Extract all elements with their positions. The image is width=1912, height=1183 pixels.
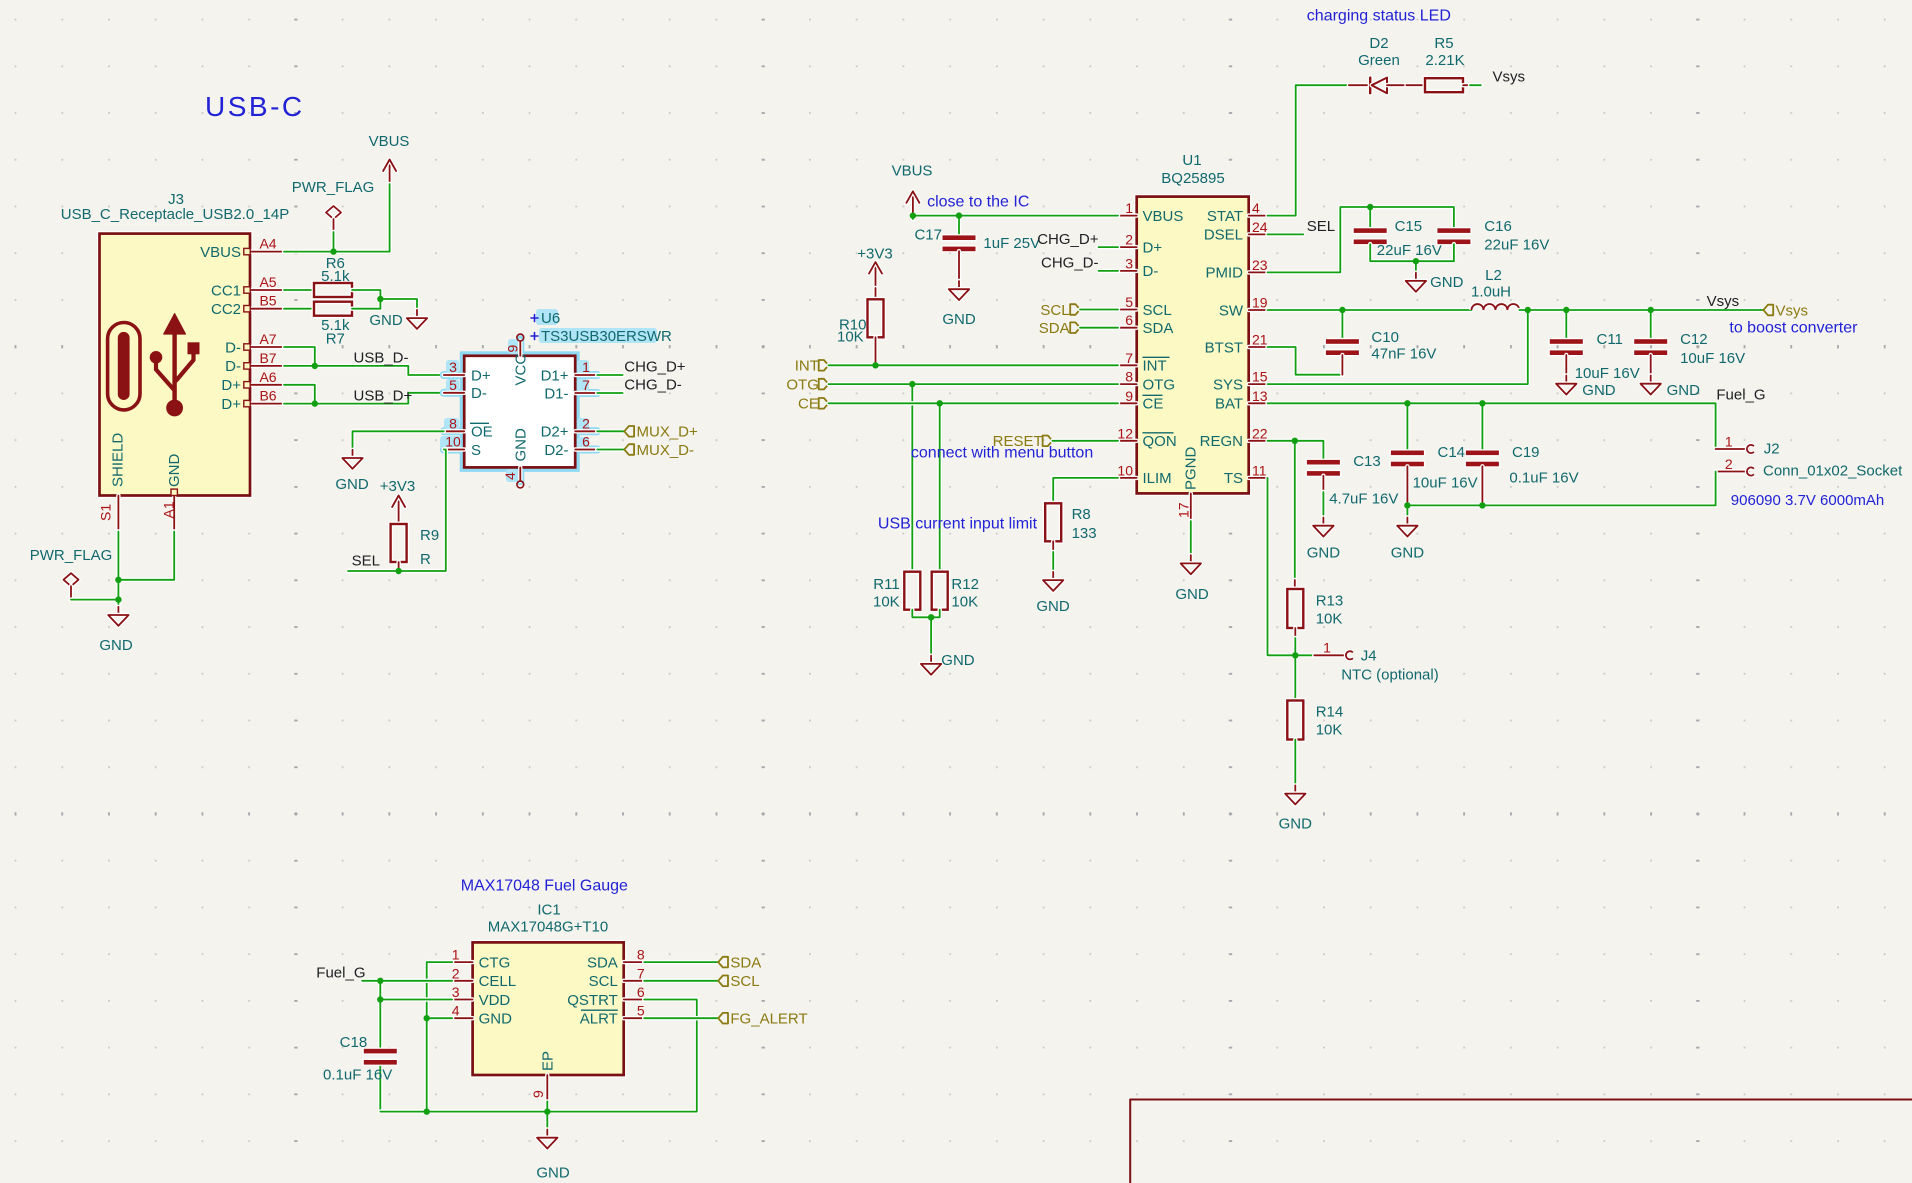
svg-text:TS3USB30ERSWR: TS3USB30ERSWR — [541, 328, 672, 345]
svg-text:GND: GND — [1175, 586, 1209, 603]
U6 pin 3 D+ — [444, 359, 491, 384]
U1 pin 12 QON — [1117, 425, 1176, 450]
wire C15 top stub — [1368, 207, 1372, 228]
J3 pin A4 VBUS — [200, 236, 284, 261]
wire IC1 gnd rail — [380, 1000, 697, 1112]
svg-text:GND: GND — [1430, 274, 1464, 291]
ground GND (R14) — [1279, 785, 1313, 832]
svg-text:GND: GND — [941, 652, 975, 669]
inductor L2 — [1471, 267, 1519, 310]
wire CE to U1 pin9 — [829, 401, 1119, 405]
IC1 pin 6 QSTRT — [567, 984, 645, 1009]
svg-text:D+: D+ — [1143, 239, 1163, 256]
svg-text:FG_ALERT: FG_ALERT — [730, 1011, 807, 1028]
ground GND (C17) — [942, 281, 976, 328]
capacitor C16 — [1436, 218, 1549, 254]
svg-text:TS: TS — [1224, 470, 1243, 487]
svg-text:GND: GND — [479, 1011, 512, 1028]
svg-text:4: 4 — [502, 472, 518, 480]
junction C14 top — [1404, 400, 1410, 406]
junction C12 top — [1648, 307, 1654, 313]
svg-text:R9: R9 — [420, 527, 439, 544]
wire SYS to L2 output — [1268, 310, 1528, 384]
wire OTG to U1 pin8 — [829, 382, 1119, 386]
U1 pin 5 SCL — [1118, 294, 1172, 319]
U1 pin 10 ILIM — [1117, 462, 1171, 487]
svg-text:1: 1 — [582, 359, 590, 375]
svg-text:CC1: CC1 — [211, 282, 241, 299]
svg-text:D-: D- — [471, 385, 487, 402]
U1 pin 7 INT — [1118, 350, 1170, 375]
IC U1 body — [1137, 197, 1249, 494]
svg-text:MUX_D+: MUX_D+ — [637, 424, 699, 441]
junction PWR_FLAG (bottom) — [115, 596, 121, 602]
power flag PWR_FLAG (top) — [292, 179, 375, 232]
hierarchical label INT — [795, 358, 829, 375]
svg-text:S: S — [471, 442, 481, 459]
wire Fuel_G to CELL — [362, 979, 452, 983]
wire C19 top stub — [1480, 403, 1484, 450]
wire DSEL to SEL label — [1268, 232, 1304, 236]
svg-text:1: 1 — [1323, 639, 1331, 655]
svg-text:C15: C15 — [1395, 218, 1423, 235]
svg-text:STAT: STAT — [1207, 208, 1243, 225]
resistor R14 — [1287, 701, 1343, 740]
svg-text:INT: INT — [1143, 358, 1167, 375]
wire R10 bottom to INT wire — [873, 337, 877, 365]
U1 pin 22 REGN — [1200, 425, 1268, 450]
svg-text:USB-C: USB-C — [205, 91, 305, 122]
connector J2 pin 2 — [1716, 456, 1754, 476]
svg-text:BTST: BTST — [1205, 339, 1243, 356]
svg-text:GND: GND — [166, 454, 183, 488]
wire R8 bottom to GND — [1051, 541, 1055, 552]
wire SW to L2 — [1268, 308, 1472, 312]
svg-text:GND: GND — [942, 311, 976, 328]
wire TS down to J4 — [1268, 478, 1296, 655]
U6 pin 9 VCC top — [505, 334, 530, 385]
svg-text:CHG_D+: CHG_D+ — [1037, 231, 1099, 248]
hierarchical label RESET — [993, 433, 1053, 450]
svg-text:2: 2 — [1125, 232, 1133, 248]
svg-text:OTG: OTG — [786, 376, 819, 393]
svg-text:GND: GND — [1036, 598, 1070, 615]
junction C15 top — [1367, 204, 1373, 210]
resistor R8 — [1045, 503, 1096, 542]
svg-text:connect with menu button: connect with menu button — [911, 444, 1093, 461]
U1 pin 17 PGND — [1176, 446, 1200, 521]
ground GND (R11/R12) — [921, 652, 975, 675]
svg-text:C17: C17 — [914, 227, 942, 244]
wire CC1 to R6 — [284, 288, 314, 292]
svg-text:10uF 16V: 10uF 16V — [1680, 350, 1745, 367]
wire R6 right to junction — [352, 290, 380, 299]
svg-text:R7: R7 — [326, 331, 345, 348]
wire C12 top stub — [1648, 310, 1652, 339]
U6 pin 4 GND bottom — [502, 428, 530, 488]
U6 pin 2 D2+ — [541, 415, 598, 440]
wire to VDD — [380, 997, 452, 1001]
svg-text:SCL: SCL — [730, 973, 759, 990]
svg-text:B6: B6 — [259, 388, 276, 404]
wire R13 top — [1293, 441, 1297, 581]
U1 pin 13 BAT — [1215, 388, 1268, 413]
svg-text:21: 21 — [1252, 332, 1268, 348]
svg-text:R12: R12 — [951, 576, 979, 593]
wire PGND to GND — [1189, 521, 1193, 555]
junction C15/C16 gnd — [1413, 258, 1419, 264]
svg-text:10: 10 — [1117, 462, 1133, 478]
power flag PWR_FLAG (bottom left) — [30, 547, 113, 600]
wire C11 bottom to GND — [1564, 355, 1568, 376]
svg-text:10uF 16V: 10uF 16V — [1575, 365, 1640, 382]
svg-text:Fuel_G: Fuel_G — [316, 965, 365, 982]
resistor R6 — [314, 255, 352, 297]
junction SEL/R9 — [395, 568, 401, 574]
U1 pin 1 VBUS — [1118, 200, 1183, 225]
svg-text:SDA: SDA — [1143, 320, 1174, 337]
svg-text:9: 9 — [1125, 388, 1133, 404]
svg-text:CE: CE — [1143, 396, 1164, 413]
svg-text:10K: 10K — [837, 329, 864, 346]
wire RESET to U1 pin12 QON — [1052, 439, 1118, 443]
junction Fuel_G/C18 column top — [377, 978, 383, 984]
svg-text:VBUS: VBUS — [369, 133, 410, 150]
U1 pin 15 SYS — [1213, 369, 1268, 394]
svg-text:9: 9 — [505, 345, 521, 353]
connector J3 body — [100, 234, 251, 496]
junction C17 top — [956, 212, 962, 218]
U6 pin 8 OE — [444, 415, 493, 440]
svg-text:R: R — [420, 551, 431, 568]
svg-text:SCL: SCL — [1040, 302, 1069, 319]
resistor R11 — [873, 572, 920, 611]
svg-text:GND: GND — [536, 1165, 570, 1182]
U1 pin 3 D- — [1118, 255, 1158, 280]
power symbol +3V3 (R9) — [380, 478, 415, 524]
svg-text:OE: OE — [471, 424, 493, 441]
wire SDA (IC1) — [644, 960, 718, 964]
capacitor C19 — [1465, 444, 1579, 486]
svg-text:9: 9 — [530, 1090, 546, 1098]
svg-text:CC2: CC2 — [211, 301, 241, 318]
U1 pin 24 DSEL — [1204, 219, 1268, 244]
svg-text:133: 133 — [1072, 525, 1097, 542]
junction OTG/R11 — [909, 381, 915, 387]
junction C19 bottom — [1479, 502, 1485, 508]
svg-text:CHG_D-: CHG_D- — [624, 377, 682, 394]
IC IC1 body — [473, 942, 624, 1075]
wire U6 pin8 OE to GND — [353, 431, 444, 450]
wire C18 column — [378, 981, 382, 1049]
wire VBUS to U1 pin1 — [911, 216, 915, 219]
resistor R5 — [1406, 35, 1470, 92]
hierarchical label SCL (U1) — [1040, 302, 1080, 319]
svg-text:Fuel_G: Fuel_G — [1716, 386, 1765, 403]
wire R11/R12 bottoms join — [912, 610, 939, 618]
svg-text:12: 12 — [1117, 425, 1133, 441]
svg-text:D-: D- — [225, 358, 241, 375]
wire SCL to U1 pin5 — [1080, 307, 1118, 311]
power symbol +3V3 (R10) — [857, 246, 892, 300]
junction VDD branch — [377, 996, 383, 1002]
junction C10 top — [1339, 307, 1345, 313]
svg-text:A6: A6 — [259, 369, 276, 385]
U6 value text TS3USB30ERSWR — [531, 328, 672, 345]
U6 pin 6 D2- — [544, 434, 597, 459]
junction C18 rail — [424, 1108, 430, 1114]
svg-text:D-: D- — [1143, 263, 1159, 280]
svg-text:USB current input limit: USB current input limit — [878, 516, 1038, 533]
capacitor C14 — [1390, 444, 1478, 492]
svg-text:S1: S1 — [98, 504, 114, 521]
U1 pin 21 BTST — [1205, 332, 1268, 357]
svg-text:INT: INT — [795, 358, 819, 375]
svg-text:CTG: CTG — [479, 954, 511, 971]
svg-text:CHG_D+: CHG_D+ — [624, 359, 686, 376]
ground GND (C15/C16) — [1406, 273, 1464, 292]
wire R7 right to junction — [352, 299, 380, 309]
svg-text:5: 5 — [449, 377, 457, 393]
wire U6 pin1 to CHG_D+ — [597, 373, 622, 377]
svg-text:19: 19 — [1252, 295, 1268, 311]
svg-text:C19: C19 — [1512, 444, 1540, 461]
svg-text:8: 8 — [1125, 369, 1133, 385]
ground GND (R8) — [1036, 572, 1070, 615]
wire SCL (IC1) — [644, 979, 718, 983]
J3 pin A7 D- — [225, 331, 284, 356]
junction CTG/GND pin4 — [424, 1015, 430, 1021]
wire C14 bottom stub — [1405, 466, 1409, 505]
hierarchical label MUX_D- — [624, 442, 694, 459]
wire C19 bottom stub — [1480, 466, 1484, 505]
wire A1 down to S1 — [118, 532, 174, 580]
svg-text:OTG: OTG — [1143, 376, 1176, 393]
svg-text:10K: 10K — [951, 594, 978, 611]
sheet outline box (bottom right) — [1130, 1100, 1912, 1183]
resistor R12 — [932, 572, 979, 611]
svg-text:Conn_01x02_Socket: Conn_01x02_Socket — [1763, 463, 1903, 480]
ground GND (PGND) — [1175, 555, 1209, 603]
svg-text:MUX_D-: MUX_D- — [637, 442, 695, 459]
svg-text:C18: C18 — [340, 1034, 368, 1051]
svg-text:VCC: VCC — [513, 354, 530, 386]
svg-text:SYS: SYS — [1213, 376, 1243, 393]
svg-text:3: 3 — [449, 359, 457, 375]
svg-text:D1-: D1- — [544, 385, 568, 402]
svg-text:R5: R5 — [1434, 35, 1453, 52]
svg-text:IC1: IC1 — [537, 902, 560, 919]
svg-text:QON: QON — [1143, 433, 1177, 450]
svg-text:10K: 10K — [873, 594, 900, 611]
hierarchical label CE — [798, 396, 828, 413]
junction R11/R12 gnd — [928, 614, 934, 620]
wire ALRT to FG_ALERT — [644, 1016, 718, 1020]
wire C10 top stub — [1340, 310, 1344, 339]
svg-text:EP: EP — [540, 1051, 557, 1071]
wire C17 top — [957, 216, 961, 236]
svg-text:0.1uF 16V: 0.1uF 16V — [1509, 469, 1578, 486]
power symbol VBUS (U1) — [892, 163, 933, 220]
svg-text:SHIELD: SHIELD — [110, 433, 127, 487]
svg-text:3: 3 — [1125, 255, 1133, 271]
svg-text:CE: CE — [798, 396, 819, 413]
U1 pin 2 D+ — [1118, 232, 1162, 257]
junction S1/A1 — [115, 577, 121, 583]
U1 pin 11 TS — [1224, 462, 1268, 487]
svg-text:GND: GND — [1279, 816, 1313, 833]
wire junction to J4 pin1 — [1295, 653, 1314, 657]
IC1 pin 9 EP — [530, 1051, 557, 1101]
U6 reference text — [531, 310, 560, 327]
svg-text:DSEL: DSEL — [1204, 227, 1243, 244]
svg-text:A1: A1 — [161, 501, 177, 518]
svg-text:906090 3.7V 6000mAh: 906090 3.7V 6000mAh — [1731, 492, 1884, 509]
wire D+ A6 to B6 — [284, 385, 315, 404]
svg-text:GND: GND — [335, 476, 369, 493]
junction TS/R13/J4 — [1292, 652, 1298, 658]
wire C15/C16 bottom rail — [1370, 244, 1454, 261]
svg-text:SW: SW — [1219, 302, 1244, 319]
ground GND (C12) — [1641, 376, 1701, 400]
svg-text:1: 1 — [1125, 200, 1133, 216]
wire PWR_FLAG stem to VBUS wire — [331, 232, 335, 252]
junction EP rail — [544, 1108, 550, 1114]
wire R14 bottom to GND — [1293, 740, 1297, 786]
IC1 pin 3 VDD — [452, 984, 511, 1009]
wire L2 to Vsys hier label — [1519, 308, 1763, 312]
svg-text:CELL: CELL — [479, 973, 517, 990]
U1 pin 23 PMID — [1206, 257, 1268, 282]
svg-text:Vsys: Vsys — [1707, 293, 1740, 310]
svg-text:SDA: SDA — [730, 954, 761, 971]
wire BAT to J2 pin1 — [1268, 403, 1749, 449]
selection halo of U6 — [444, 340, 597, 482]
svg-text:2: 2 — [582, 415, 590, 431]
wire USB_D+ to U6 pin5 — [284, 393, 444, 404]
U1 pin 19 SW — [1219, 295, 1268, 320]
svg-text:U1: U1 — [1182, 152, 1201, 169]
svg-text:22uF 16V: 22uF 16V — [1377, 242, 1442, 259]
wire INT to U1 pin7 — [829, 363, 1119, 367]
junction D+ wires — [312, 400, 318, 406]
svg-text:VDD: VDD — [479, 992, 511, 1009]
U6 pin 7 D1- — [544, 377, 597, 402]
J3 pin A6 D+ — [221, 369, 284, 394]
ground GND (U6 OE) — [335, 450, 369, 493]
wire PMID to C15/C16 rail — [1268, 207, 1454, 272]
svg-text:SEL: SEL — [352, 553, 380, 570]
power symbol VBUS (top left) — [369, 133, 410, 188]
wire VBUS from J3 A4 — [284, 184, 390, 252]
svg-text:D1+: D1+ — [541, 367, 569, 384]
hierarchical label MUX_D+ — [624, 424, 698, 441]
J3 pin B7 D- — [225, 350, 284, 375]
svg-text:MAX17048 Fuel Gauge: MAX17048 Fuel Gauge — [461, 878, 628, 895]
svg-text:C10: C10 — [1371, 329, 1399, 346]
svg-text:PWR_FLAG: PWR_FLAG — [292, 179, 375, 196]
connector J3 USB icon — [108, 314, 200, 417]
svg-text:10K: 10K — [1316, 722, 1343, 739]
capacitor C15 — [1352, 218, 1441, 259]
wire EP rail to GND — [545, 1112, 549, 1130]
svg-text:SDA: SDA — [1039, 320, 1070, 337]
svg-text:J4: J4 — [1361, 648, 1377, 665]
svg-text:+3V3: +3V3 — [380, 478, 415, 495]
svg-text:4: 4 — [1252, 200, 1260, 216]
svg-text:R14: R14 — [1316, 704, 1344, 721]
svg-text:D+: D+ — [221, 377, 241, 394]
svg-text:7: 7 — [582, 377, 590, 393]
svg-text:10K: 10K — [1316, 611, 1343, 628]
wire R11 top — [910, 384, 914, 572]
LED D2 — [1349, 35, 1407, 93]
wire SDA to U1 pin6 — [1080, 326, 1118, 330]
J3 pin B6 D+ — [221, 388, 284, 413]
wire U6 pin7 to CHG_D- — [597, 391, 622, 395]
U6 pin 1 D1+ — [541, 359, 598, 384]
hierarchical label FG_ALERT — [718, 1011, 807, 1028]
svg-text:R13: R13 — [1316, 593, 1344, 610]
ground GND (C14) — [1391, 518, 1425, 562]
wire CHG_D+ to U1 pin2 — [1099, 245, 1119, 249]
svg-text:17: 17 — [1176, 502, 1192, 518]
svg-text:1.0uH: 1.0uH — [1471, 284, 1511, 301]
svg-text:SDA: SDA — [587, 954, 618, 971]
svg-text:C12: C12 — [1680, 331, 1708, 348]
wire SEL net — [348, 450, 446, 572]
junction C11 top — [1563, 307, 1569, 313]
svg-text:J2: J2 — [1764, 441, 1780, 458]
wire C13 bottom to GND — [1321, 476, 1325, 492]
wire U6 pin6 to MUX_D- — [597, 447, 624, 451]
resistor R9 — [391, 524, 440, 568]
wire CC2 to R7 — [284, 307, 314, 311]
wire U6 pin2 to MUX_D+ — [597, 429, 624, 433]
wire junction to GND — [380, 299, 417, 310]
svg-text:GND: GND — [1667, 382, 1701, 399]
svg-text:BQ25895: BQ25895 — [1161, 170, 1224, 187]
U1 pin 4 STAT — [1207, 200, 1268, 225]
U6 pin 10 S — [444, 434, 481, 459]
svg-text:VBUS: VBUS — [200, 244, 241, 261]
svg-text:22uF 16V: 22uF 16V — [1484, 237, 1549, 254]
svg-text:D2+: D2+ — [541, 424, 569, 441]
svg-text:B5: B5 — [259, 293, 276, 309]
svg-text:SCL: SCL — [1143, 302, 1172, 319]
svg-text:VBUS: VBUS — [1143, 208, 1184, 225]
junction REGN/R13 — [1292, 438, 1298, 444]
ground GND (C13) — [1307, 518, 1341, 562]
svg-text:VBUS: VBUS — [892, 163, 933, 180]
svg-text:D2: D2 — [1369, 35, 1388, 52]
svg-text:D+: D+ — [471, 367, 491, 384]
ground GND (IC1) — [536, 1130, 570, 1182]
wire junction to GND (R11/R12) — [929, 617, 933, 655]
svg-text:47nF 16V: 47nF 16V — [1371, 346, 1436, 363]
wire S1 down — [116, 532, 120, 580]
svg-text:C16: C16 — [1484, 218, 1512, 235]
svg-text:11: 11 — [1252, 462, 1267, 478]
svg-text:GND: GND — [99, 637, 133, 654]
svg-text:L2: L2 — [1485, 267, 1502, 284]
IC1 pin 1 CTG — [452, 947, 511, 972]
svg-text:1uF 25V: 1uF 25V — [983, 235, 1040, 252]
svg-text:Green: Green — [1358, 52, 1400, 69]
svg-text:13: 13 — [1252, 388, 1268, 404]
svg-text:A7: A7 — [259, 331, 276, 347]
wire C12 bottom to GND — [1648, 355, 1652, 376]
